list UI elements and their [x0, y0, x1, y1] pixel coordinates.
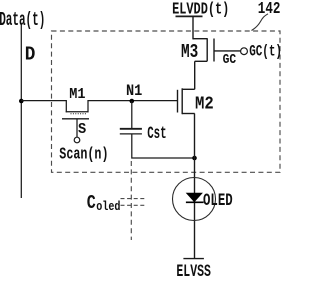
capacitor Coled dashed connection (vertical): [130, 161, 132, 240]
svg-text:Scan(n): Scan(n): [59, 146, 108, 164]
svg-text:ELVSS: ELVSS: [176, 263, 211, 276]
data line D (vertical wire): [20, 25, 22, 199]
transistor M3: [193, 38, 241, 61]
transistor M2: [178, 88, 195, 114]
svg-text:GC(t): GC(t): [249, 44, 282, 62]
node: Cst / M2 source / OLED junction dot: [192, 156, 197, 161]
svg-text:S: S: [78, 121, 87, 138]
svg-text:M1: M1: [69, 86, 85, 103]
svg-text:GC: GC: [223, 51, 237, 68]
wire: data junction to M1 source: [21, 100, 66, 102]
svg-text:M2: M2: [195, 94, 214, 115]
svg-text:OLED: OLED: [203, 190, 233, 211]
svg-text:M3: M3: [181, 42, 198, 64]
svg-text:N1: N1: [126, 83, 142, 100]
dashed pixel-circuit boundary box 142: [52, 31, 281, 172]
wire: M1 drain to node N1 to M2 gate: [88, 100, 178, 102]
terminal S (scan gate contact circle): [74, 137, 80, 143]
wire: M2 source down to junction: [194, 114, 196, 159]
svg-text:Data(t): Data(t): [0, 9, 45, 31]
node N1 junction dot: [130, 99, 135, 104]
svg-text:142: 142: [258, 1, 281, 19]
callout leader line to 142: [252, 14, 269, 31]
wire: OLED branch junction down to ELVSS: [194, 158, 196, 259]
capacitor Coled dashed plates: [121, 199, 145, 206]
wire: Cst bottom to junction on OLED branch: [132, 134, 195, 158]
wire: N1 down to Cst: [131, 101, 133, 128]
OLED diode triangle (anode): [187, 193, 202, 201]
svg-text:D: D: [25, 44, 36, 66]
capacitor Cst: [120, 129, 142, 134]
svg-text:ELVDD(t): ELVDD(t): [172, 1, 229, 19]
OLED cathode bar: [186, 201, 204, 203]
svg-text:Cst: Cst: [147, 125, 166, 144]
power rail ELVDD bar: [176, 15, 203, 17]
transistor M1: [62, 100, 89, 137]
terminal GC circle: [241, 48, 248, 55]
svg-text:oled: oled: [96, 199, 120, 215]
OLED circle outline: [173, 178, 216, 221]
power rail ELVSS bar: [183, 258, 204, 260]
node: data line junction dot: [19, 99, 24, 104]
wire: ELVDD bar down to M3 drain: [192, 16, 194, 39]
wire: M2 drain up to M3 source: [194, 61, 196, 89]
svg-text:C: C: [87, 194, 96, 215]
